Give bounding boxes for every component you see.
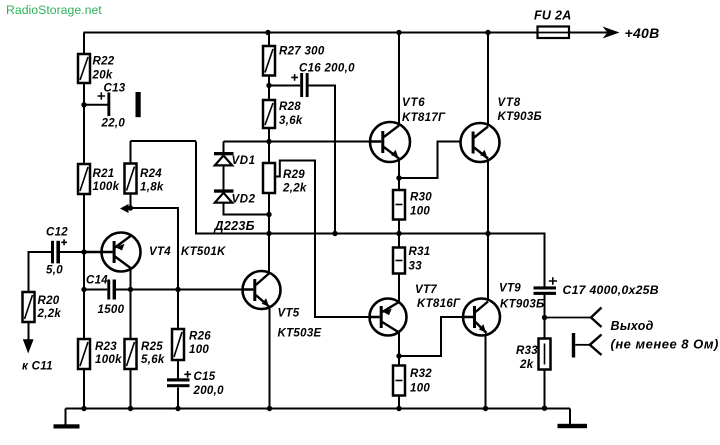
junction ground rail / R25	[128, 406, 133, 411]
wire C16 branch	[269, 86, 335, 234]
junction top rail / VT6 collector	[396, 30, 401, 35]
output fork upper	[591, 308, 602, 328]
wire VT8 leads	[487, 33, 489, 234]
svg-text:R25: R25	[141, 341, 163, 353]
resistor R21 100k	[78, 164, 120, 194]
wire left column x=84	[83, 33, 85, 409]
svg-text:C16 200,0: C16 200,0	[299, 63, 355, 75]
svg-text:R31: R31	[409, 246, 431, 258]
svg-text:KT503E: KT503E	[278, 328, 322, 340]
svg-text:20k: 20k	[92, 70, 113, 82]
svg-text:VT5: VT5	[278, 308, 300, 320]
wire top +40V rail	[84, 32, 617, 34]
svg-text:C13: C13	[104, 83, 126, 95]
ground right	[569, 409, 571, 425]
junction VT7 collector node	[396, 353, 401, 358]
diode VD1	[214, 152, 256, 167]
wire R29 wiper to VT7 base	[275, 161, 370, 318]
wire R27 R28 R29 column x=269	[268, 33, 270, 273]
svg-text:100: 100	[189, 344, 209, 356]
svg-text:Выход: Выход	[611, 319, 654, 333]
svg-text:VD2: VD2	[232, 194, 256, 206]
capacitor C16 200,0	[291, 63, 355, 98]
junction bus / VT5 collector	[266, 231, 271, 236]
junction VT4 collector / C14 right	[128, 287, 133, 292]
wire R24 top link	[131, 141, 197, 208]
wire output tap	[545, 317, 592, 319]
svg-text:200,0: 200,0	[193, 385, 225, 397]
svg-text:VT4: VT4	[149, 246, 171, 258]
svg-text:33: 33	[409, 261, 423, 273]
transistor VT4 KT501K	[84, 233, 226, 272]
resistor R24 1,8k	[125, 164, 164, 194]
svg-text:R21: R21	[93, 168, 115, 180]
VT4 emitter junction arrow	[120, 204, 129, 213]
junction C16 left / R27-R28	[266, 83, 271, 88]
junction VT6 emitter node	[396, 175, 401, 180]
junction ground rail / R33	[542, 406, 547, 411]
wire VT4 collector lead	[130, 268, 132, 339]
wire middle bus rail y=233.5	[196, 142, 545, 287]
wire VT6 leads	[398, 33, 400, 191]
resistor R20 2,2k	[23, 292, 62, 322]
svg-text:1500: 1500	[98, 304, 125, 316]
transistor VT6 KT817G	[370, 97, 446, 162]
svg-text:R29: R29	[283, 169, 305, 181]
junction C14 left node	[81, 287, 86, 292]
svg-text:KT816Г: KT816Г	[417, 298, 461, 310]
svg-text:3,6k: 3,6k	[279, 115, 303, 127]
junction feedback / VT5 base line	[175, 287, 180, 292]
transistor VT7 KT816G	[370, 284, 462, 336]
resistor R26 100	[172, 329, 211, 360]
svg-text:KT903Б: KT903Б	[498, 111, 542, 123]
svg-text:100: 100	[410, 206, 430, 218]
svg-text:22,0: 22,0	[101, 118, 126, 130]
capacitor C13 22,0	[98, 83, 141, 130]
svg-text:Д223Б: Д223Б	[214, 219, 255, 233]
svg-text:R26: R26	[189, 331, 211, 343]
junction top rail / VT8 collector	[485, 30, 490, 35]
svg-text:KT501K: KT501K	[181, 246, 226, 258]
svg-text:C14: C14	[86, 275, 108, 287]
resistor R29 2,2k trimmer	[263, 163, 307, 195]
wire C14 / VT5 base line y=289.5	[84, 289, 243, 291]
svg-text:KT817Г: KT817Г	[402, 112, 446, 124]
output fork lower with bar	[572, 333, 575, 358]
wire VT6 emitter to VT8 base	[399, 142, 472, 179]
svg-text:100: 100	[410, 383, 430, 395]
svg-text:VT8: VT8	[498, 97, 522, 109]
wire C17 R33 output column	[544, 295, 546, 408]
svg-text:FU 2A: FU 2A	[534, 9, 572, 23]
junction VT4 base node	[81, 249, 86, 254]
resistor R31 33	[393, 246, 431, 274]
resistor R22 20k	[78, 54, 115, 83]
junction R28 / VT6 base net	[266, 139, 271, 144]
wire VT9 leads	[486, 234, 489, 409]
svg-text:5,0: 5,0	[46, 265, 63, 277]
resistor R32 100	[393, 366, 432, 396]
arrow to C11	[23, 339, 34, 353]
junction top rail / R27	[265, 30, 270, 35]
junction ground rail / C15	[175, 406, 180, 411]
junction ground rail / VT9 emitter	[483, 406, 488, 411]
svg-text:к C11: к C11	[22, 361, 53, 373]
svg-text:R22: R22	[93, 56, 115, 68]
svg-text:5,6k: 5,6k	[141, 354, 165, 366]
wire diode chain	[224, 142, 270, 215]
junction ground rail / VT5 emitter	[267, 406, 272, 411]
svg-text:C15: C15	[194, 371, 216, 383]
svg-text:R23: R23	[95, 341, 117, 353]
wire VT4 feedback x=177	[131, 208, 179, 409]
junction R24 / VT4 emitter	[128, 205, 133, 210]
svg-text:R33: R33	[516, 345, 538, 357]
diode VD2	[214, 189, 256, 205]
svg-text:2,2k: 2,2k	[282, 183, 307, 195]
junction ground rail / R32	[396, 406, 401, 411]
svg-text:R20: R20	[38, 295, 60, 307]
fuse FU 2A	[534, 9, 572, 39]
svg-text:RadioStorage.net: RadioStorage.net	[6, 3, 102, 17]
transistor VT8 KT903B	[461, 97, 542, 162]
svg-text:1,8k: 1,8k	[140, 182, 164, 194]
resistor R25 5,6k	[125, 339, 165, 369]
junction diodes / R29 bottom	[266, 212, 271, 217]
junction C13 tap	[81, 102, 86, 107]
svg-text:100k: 100k	[95, 354, 122, 366]
wire C12 R20 branch	[29, 252, 85, 292]
capacitor C15 200,0	[167, 371, 224, 397]
wire C13 link	[84, 104, 108, 106]
resistor R30 100	[393, 190, 432, 220]
junction bus / C16 branch	[332, 231, 337, 236]
svg-text:(не менее 8 Ом): (не менее 8 Ом)	[611, 337, 719, 352]
svg-text:C12: C12	[46, 227, 68, 239]
svg-text:KT903Б: KT903Б	[500, 299, 544, 311]
ground left	[65, 409, 67, 425]
svg-text:C17 4000,0x25В: C17 4000,0x25В	[563, 283, 659, 297]
resistor R27 300	[263, 46, 325, 76]
svg-text:VT7: VT7	[415, 284, 437, 296]
wire VT5 collector-emitter leads	[268, 193, 271, 409]
arrow +40V	[603, 27, 620, 39]
junction ground rail / R23	[81, 406, 86, 411]
svg-text:VT6: VT6	[402, 97, 426, 109]
svg-text:2k: 2k	[519, 359, 534, 371]
resistor R33 2k	[516, 339, 551, 372]
wire bottom ground rail	[66, 408, 571, 410]
capacitor C12 5,0	[46, 227, 68, 277]
wire VT6 base net y=141.5	[224, 141, 371, 143]
svg-text:100k: 100k	[93, 181, 120, 193]
wire R30 R31 column	[398, 220, 400, 303]
node output / C17-R33	[542, 315, 547, 320]
capacitor C14 1500	[86, 275, 125, 317]
svg-text:R32: R32	[410, 368, 432, 380]
svg-text:+40В: +40В	[625, 25, 660, 41]
wire R25 column	[130, 369, 132, 409]
junction bus / VT8 emitter	[485, 231, 490, 236]
svg-text:R30: R30	[410, 192, 432, 204]
wire R20 arrow shaft	[28, 322, 30, 349]
wire R32 bottom	[398, 396, 400, 409]
wire VT7 collector to VT9 base	[399, 317, 463, 366]
svg-text:VT9: VT9	[499, 283, 521, 295]
junction bus / R30-R31	[396, 231, 401, 236]
svg-text:VD1: VD1	[232, 155, 256, 167]
transistor VT9 KT903B	[463, 283, 544, 336]
svg-text:R28: R28	[279, 101, 301, 113]
svg-text:2,2k: 2,2k	[37, 308, 62, 320]
resistor R28 3,6k	[263, 100, 303, 128]
svg-text:R24: R24	[140, 168, 162, 180]
svg-text:R27 300: R27 300	[279, 46, 325, 58]
capacitor C17 4000,0x25V	[534, 277, 659, 297]
transistor VT5 KT503E	[243, 271, 322, 340]
resistor R23 100k	[78, 339, 122, 369]
